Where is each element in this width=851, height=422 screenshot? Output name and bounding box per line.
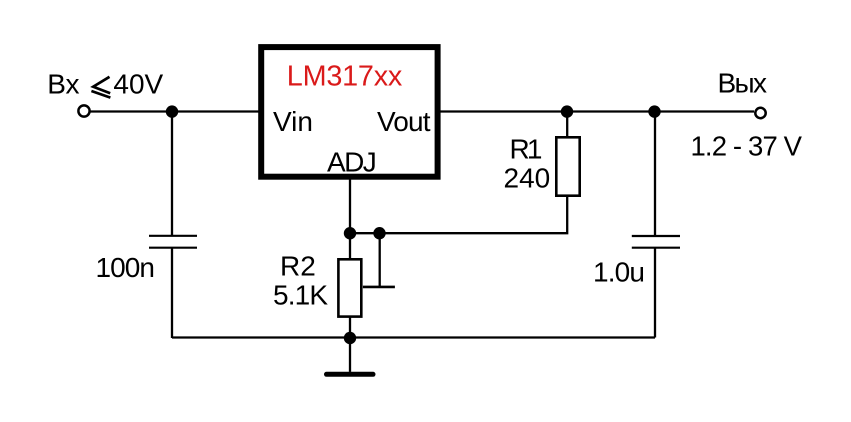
junction ground node — [344, 332, 356, 344]
svg-text:40V: 40V — [113, 69, 163, 100]
less-or-equal symbol — [91, 77, 110, 98]
svg-text:Vout: Vout — [377, 106, 431, 137]
wire C1 top — [171, 111, 173, 236]
wire input horizontal — [90, 110, 259, 112]
wire output horizontal — [440, 110, 754, 112]
junction Vout node at C2 — [648, 105, 660, 117]
capacitor C1 100n plate top — [149, 235, 197, 237]
svg-text:240: 240 — [504, 163, 551, 194]
svg-text:R1: R1 — [510, 133, 543, 164]
output terminal — [755, 108, 765, 118]
capacitor C2 1.0u plate bottom — [632, 247, 680, 249]
input terminal — [78, 105, 89, 116]
wire C1 bottom — [171, 248, 173, 338]
svg-text:1.0u: 1.0u — [593, 257, 645, 288]
capacitor C2 1.0u plate top — [632, 235, 680, 237]
junction wiper node — [373, 227, 385, 239]
svg-text:ADJ: ADJ — [327, 146, 377, 177]
regulator U1 LM317 box — [261, 47, 437, 177]
resistor R1 body — [556, 137, 579, 195]
svg-text:5.1K: 5.1K — [273, 280, 328, 311]
svg-text:R2: R2 — [280, 250, 316, 281]
svg-text:LM317xx: LM317xx — [287, 61, 403, 93]
ground — [327, 372, 374, 377]
resistor R2 body — [338, 259, 361, 316]
wire R1 top — [566, 111, 568, 137]
capacitor C1 100n plate bottom — [149, 247, 197, 249]
wire R1 bottom — [350, 196, 567, 233]
junction ADJ node — [344, 227, 356, 239]
junction input node — [166, 105, 178, 117]
wire C2 top — [654, 111, 656, 236]
svg-text:Вх: Вх — [47, 69, 79, 100]
wire ground rail — [172, 336, 655, 338]
wire wiper vertical — [379, 233, 381, 287]
wire R2 bottom — [349, 317, 351, 338]
wire ADJ — [349, 177, 351, 259]
svg-text:Vin: Vin — [273, 106, 313, 137]
junction Vout node at R1 — [561, 105, 573, 117]
svg-text:1.2 - 37 V: 1.2 - 37 V — [691, 130, 803, 161]
svg-text:Вых: Вых — [718, 68, 768, 99]
wire C2 bottom — [654, 248, 656, 338]
svg-text:100n: 100n — [96, 252, 156, 283]
wire ground stub — [349, 338, 351, 372]
wiper bar — [363, 286, 395, 289]
